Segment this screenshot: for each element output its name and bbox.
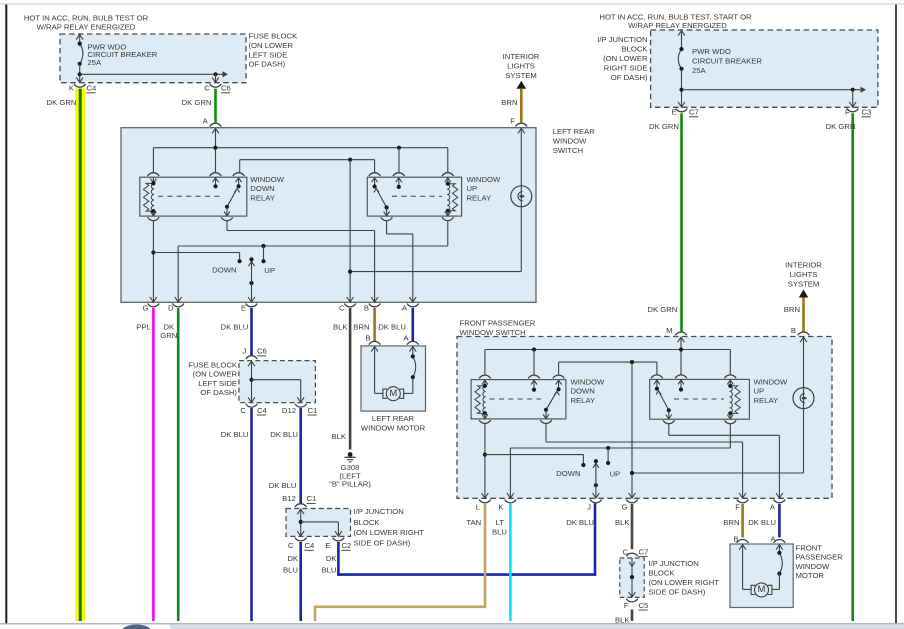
svg-text:25A: 25A: [692, 66, 707, 75]
svg-text:UP: UP: [467, 184, 478, 193]
svg-text:C: C: [204, 84, 210, 93]
svg-text:BLU: BLU: [283, 565, 298, 574]
svg-text:BLK: BLK: [331, 432, 346, 441]
svg-text:L: L: [476, 502, 481, 511]
svg-text:UP: UP: [754, 387, 765, 396]
svg-text:B: B: [733, 534, 738, 543]
svg-text:DK BLU: DK BLU: [378, 322, 406, 331]
svg-text:DK BLU: DK BLU: [221, 322, 249, 331]
svg-text:DK BLU: DK BLU: [269, 481, 297, 490]
svg-text:BRN: BRN: [723, 518, 739, 527]
svg-text:OF DASH): OF DASH): [611, 73, 648, 82]
svg-text:C1: C1: [308, 406, 318, 415]
svg-text:INTERIOR: INTERIOR: [503, 52, 540, 61]
svg-text:B: B: [365, 334, 370, 343]
svg-text:LEFT REAR: LEFT REAR: [372, 414, 415, 423]
svg-text:DK GRN: DK GRN: [826, 122, 856, 131]
svg-text:C4: C4: [305, 541, 316, 550]
svg-text:HOT IN ACC, RUN, BULB TEST OR: HOT IN ACC, RUN, BULB TEST OR: [24, 13, 149, 22]
svg-text:F: F: [845, 108, 850, 117]
svg-text:BLOCK: BLOCK: [621, 44, 648, 53]
svg-text:DK GRN: DK GRN: [47, 98, 77, 107]
svg-text:DOWN: DOWN: [250, 184, 274, 193]
svg-text:INTERIOR: INTERIOR: [785, 260, 822, 269]
svg-text:A: A: [203, 117, 209, 126]
svg-text:RELAY: RELAY: [571, 396, 596, 405]
svg-text:OF DASH): OF DASH): [200, 388, 237, 397]
svg-text:(ON LOWER: (ON LOWER: [193, 370, 238, 379]
svg-text:SIDE OF DASH): SIDE OF DASH): [649, 588, 706, 597]
svg-text:BLOCK: BLOCK: [354, 518, 381, 527]
svg-text:C: C: [339, 303, 345, 312]
svg-text:LIGHTS: LIGHTS: [507, 61, 535, 70]
svg-text:M: M: [758, 584, 766, 595]
svg-text:M: M: [666, 326, 672, 335]
svg-text:UP: UP: [264, 266, 275, 275]
svg-text:G: G: [143, 303, 149, 312]
svg-text:C4: C4: [87, 84, 98, 93]
svg-text:C6: C6: [257, 347, 267, 356]
svg-text:DK GRN: DK GRN: [647, 305, 677, 314]
svg-text:E: E: [325, 541, 330, 550]
svg-text:SYSTEM: SYSTEM: [788, 279, 820, 288]
svg-text:SIDE OF DASH): SIDE OF DASH): [354, 539, 411, 548]
svg-text:A: A: [403, 334, 409, 343]
svg-text:(ON LOWER: (ON LOWER: [603, 54, 648, 63]
svg-text:WINDOW: WINDOW: [553, 136, 587, 145]
svg-text:B: B: [364, 303, 369, 312]
svg-text:WINDOW: WINDOW: [754, 377, 788, 386]
svg-text:LEFT SIDE: LEFT SIDE: [249, 50, 288, 59]
svg-text:WINDOW: WINDOW: [796, 562, 830, 571]
svg-text:C: C: [240, 406, 246, 415]
svg-text:OF DASH): OF DASH): [249, 60, 286, 69]
svg-text:C6: C6: [221, 84, 231, 93]
svg-text:HOT IN ACC, RUN, BULB TEST, ST: HOT IN ACC, RUN, BULB TEST, START OR: [599, 12, 752, 21]
svg-text:C: C: [288, 541, 294, 550]
svg-text:LEFT SIDE: LEFT SIDE: [198, 379, 237, 388]
svg-text:FUSE BLOCK: FUSE BLOCK: [249, 31, 299, 40]
svg-text:DK BLU: DK BLU: [221, 430, 249, 439]
svg-text:W/RAP RELAY ENERGIZED: W/RAP RELAY ENERGIZED: [628, 21, 727, 30]
svg-text:LEFT REAR: LEFT REAR: [553, 127, 596, 136]
svg-text:I/P JUNCTION: I/P JUNCTION: [649, 559, 699, 568]
svg-text:PPL: PPL: [136, 322, 151, 331]
svg-text:WINDOW MOTOR: WINDOW MOTOR: [361, 423, 426, 432]
svg-text:WINDOW: WINDOW: [571, 377, 605, 386]
svg-text:F: F: [735, 502, 740, 511]
svg-text:BLU: BLU: [322, 565, 337, 574]
svg-text:E: E: [672, 108, 677, 117]
svg-text:K: K: [498, 502, 504, 511]
svg-text:DK GRN: DK GRN: [182, 98, 212, 107]
svg-text:(ON LOWER RIGHT: (ON LOWER RIGHT: [649, 578, 720, 587]
svg-text:DOWN: DOWN: [571, 387, 595, 396]
svg-text:DK: DK: [287, 554, 299, 563]
svg-text:RELAY: RELAY: [467, 193, 492, 202]
svg-text:I/P JUNCTION: I/P JUNCTION: [597, 35, 647, 44]
svg-text:FUSE BLOCK: FUSE BLOCK: [188, 361, 238, 370]
svg-text:"B" PILLAR): "B" PILLAR): [329, 480, 371, 489]
svg-text:SWITCH: SWITCH: [553, 146, 583, 155]
svg-text:RIGHT SIDE: RIGHT SIDE: [604, 63, 648, 72]
svg-text:J: J: [242, 347, 246, 356]
svg-text:D12: D12: [282, 406, 296, 415]
svg-text:D: D: [168, 303, 174, 312]
svg-text:(ON LOWER RIGHT: (ON LOWER RIGHT: [354, 528, 425, 537]
svg-text:RELAY: RELAY: [754, 396, 779, 405]
svg-text:MOTOR: MOTOR: [796, 571, 825, 580]
svg-text:DK BLU: DK BLU: [748, 518, 776, 527]
svg-text:DOWN: DOWN: [212, 266, 236, 275]
svg-text:A: A: [770, 502, 776, 511]
svg-text:C7: C7: [639, 547, 649, 556]
svg-text:WINDOW SWITCH: WINDOW SWITCH: [460, 328, 526, 337]
svg-text:A: A: [770, 534, 776, 543]
svg-text:FRONT: FRONT: [796, 543, 823, 552]
svg-text:BLU: BLU: [492, 527, 507, 536]
svg-text:C4: C4: [257, 406, 268, 415]
svg-text:PASSENGER: PASSENGER: [796, 553, 844, 562]
svg-text:25A: 25A: [87, 58, 102, 67]
svg-text:BLK: BLK: [615, 615, 630, 624]
svg-text:UP: UP: [610, 470, 621, 479]
svg-text:FRONT PASSENGER: FRONT PASSENGER: [460, 319, 536, 328]
svg-text:C5: C5: [639, 601, 649, 610]
svg-text:C2: C2: [342, 541, 352, 550]
svg-text:DK: DK: [326, 554, 338, 563]
svg-text:SYSTEM: SYSTEM: [505, 71, 537, 80]
svg-text:BLK: BLK: [615, 518, 630, 527]
svg-text:F: F: [624, 601, 629, 610]
svg-text:B: B: [791, 326, 796, 335]
svg-text:DK BLU: DK BLU: [270, 430, 298, 439]
svg-text:K: K: [69, 84, 75, 93]
svg-text:G: G: [622, 502, 628, 511]
svg-text:LIGHTS: LIGHTS: [790, 270, 818, 279]
svg-text:C1: C1: [307, 494, 317, 503]
svg-text:WINDOW: WINDOW: [250, 175, 284, 184]
svg-text:A: A: [402, 303, 408, 312]
svg-text:BRN: BRN: [784, 305, 800, 314]
svg-text:C7: C7: [689, 108, 699, 117]
svg-text:C: C: [622, 547, 628, 556]
svg-text:BLOCK: BLOCK: [649, 569, 676, 578]
svg-text:C3: C3: [862, 108, 872, 117]
svg-text:DK BLU: DK BLU: [566, 518, 594, 527]
svg-text:F: F: [510, 117, 515, 126]
svg-text:TAN: TAN: [466, 518, 481, 527]
svg-text:BRN: BRN: [353, 322, 369, 331]
svg-text:E: E: [241, 303, 246, 312]
svg-text:I/P JUNCTION: I/P JUNCTION: [354, 507, 404, 516]
svg-text:WINDOW: WINDOW: [467, 175, 501, 184]
svg-text:W/RAP RELAY ENERGIZED: W/RAP RELAY ENERGIZED: [37, 23, 136, 32]
svg-text:RELAY: RELAY: [250, 193, 275, 202]
svg-text:(ON LOWER: (ON LOWER: [249, 41, 294, 50]
svg-text:DOWN: DOWN: [556, 469, 580, 478]
svg-text:B12: B12: [282, 494, 296, 503]
svg-text:J: J: [587, 502, 591, 511]
svg-text:BLK: BLK: [333, 322, 348, 331]
svg-text:CIRCUIT BREAKER: CIRCUIT BREAKER: [692, 56, 762, 65]
svg-text:BRN: BRN: [501, 98, 517, 107]
svg-text:GRN: GRN: [160, 331, 177, 340]
svg-text:DK GRN: DK GRN: [649, 122, 679, 131]
svg-text:M: M: [389, 388, 397, 399]
svg-text:PWR WDO: PWR WDO: [692, 47, 731, 56]
svg-text:LT: LT: [496, 518, 505, 527]
